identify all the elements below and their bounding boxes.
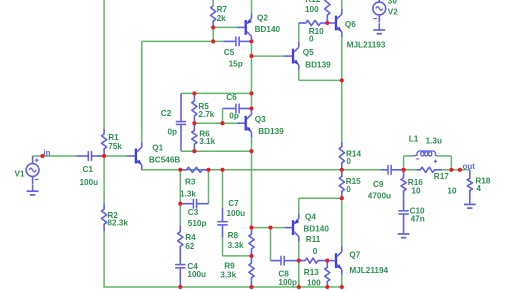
label - bbox=[35, 179, 39, 181]
wire bbox=[213, 26, 237, 28]
transistor Q1 bbox=[127, 142, 141, 170]
capacitor C1 bbox=[76, 151, 104, 161]
node out bbox=[458, 168, 462, 172]
label C5 bbox=[224, 48, 235, 57]
wire bbox=[298, 70, 300, 80]
wire bbox=[212, 27, 214, 41]
svg-text:Q6: Q6 bbox=[345, 20, 356, 29]
wire bbox=[270, 228, 272, 261]
svg-text:10: 10 bbox=[447, 186, 457, 195]
label Q7 bbox=[349, 250, 360, 259]
node R8-top-tap bbox=[249, 226, 253, 230]
svg-text:3.1k: 3.1k bbox=[199, 137, 215, 146]
svg-text:R11: R11 bbox=[306, 235, 321, 244]
svg-text:4700u: 4700u bbox=[368, 191, 391, 200]
resistor R10 bbox=[299, 20, 328, 25]
node R13-bottom bbox=[325, 285, 329, 289]
svg-text:Q1: Q1 bbox=[152, 143, 163, 152]
voltage source V2 bbox=[373, 0, 386, 23]
svg-text:BC546B: BC546B bbox=[149, 155, 180, 164]
label R18 bbox=[475, 177, 490, 186]
svg-text:MJL21194: MJL21194 bbox=[349, 266, 388, 275]
wire bbox=[437, 155, 451, 157]
svg-text:BD140: BD140 bbox=[303, 224, 329, 233]
svg-text:100u: 100u bbox=[227, 209, 246, 218]
node R7-bottom bbox=[211, 25, 215, 29]
transistor Q3 bbox=[237, 109, 251, 137]
wire bbox=[252, 227, 285, 229]
label C7 bbox=[228, 199, 239, 208]
wire bbox=[251, 41, 253, 108]
wire bbox=[103, 0, 105, 128]
svg-text:4: 4 bbox=[476, 184, 481, 193]
label R5 bbox=[198, 102, 209, 111]
label 30 bbox=[388, 0, 398, 6]
node in bbox=[40, 154, 44, 158]
svg-text:0: 0 bbox=[346, 185, 351, 194]
label 1.3u bbox=[426, 137, 442, 146]
label V1 bbox=[15, 170, 25, 179]
node rail-right bbox=[249, 91, 253, 95]
node Q6-base bbox=[325, 21, 329, 25]
label R4 bbox=[185, 233, 196, 242]
svg-text:1.3k: 1.3k bbox=[180, 190, 196, 199]
resistor R11 bbox=[299, 258, 328, 263]
capacitor C10 bbox=[398, 198, 408, 227]
svg-text:47n: 47n bbox=[411, 215, 425, 224]
label R12 bbox=[305, 0, 320, 4]
resistor R13 bbox=[325, 261, 330, 287]
svg-text:0p: 0p bbox=[229, 112, 239, 121]
wire bbox=[299, 79, 342, 81]
wire bbox=[341, 0, 343, 9]
wire bbox=[298, 242, 300, 287]
label 4700u bbox=[368, 191, 391, 200]
node Q5-base-tap bbox=[249, 54, 253, 58]
node Q4-coll bbox=[297, 259, 301, 263]
capacitor C9 bbox=[381, 165, 404, 175]
svg-text:Q2: Q2 bbox=[257, 14, 268, 23]
svg-text:62: 62 bbox=[185, 242, 195, 251]
wire bbox=[222, 109, 224, 124]
wire bbox=[179, 170, 181, 204]
wire bbox=[299, 197, 342, 199]
node in-junction bbox=[102, 154, 106, 158]
label MJL21193 bbox=[347, 40, 386, 49]
ground bbox=[398, 227, 410, 238]
svg-text:in: in bbox=[43, 149, 50, 158]
label 4 bbox=[476, 184, 481, 193]
node Q4-base bbox=[268, 226, 272, 230]
label 0 bbox=[313, 247, 318, 256]
resistor R9 bbox=[249, 256, 254, 287]
resistor R1 bbox=[102, 128, 107, 156]
label Q6 bbox=[345, 20, 356, 29]
label R17 bbox=[434, 172, 449, 181]
svg-text:R8: R8 bbox=[228, 231, 239, 240]
wire bbox=[103, 286, 341, 288]
svg-text:Q4: Q4 bbox=[305, 213, 316, 222]
label R16 bbox=[408, 178, 423, 187]
svg-text:C1: C1 bbox=[83, 165, 94, 174]
label 100u bbox=[80, 178, 99, 187]
svg-text:BD140: BD140 bbox=[255, 25, 281, 34]
node R9-bottom bbox=[249, 285, 253, 289]
wire bbox=[222, 237, 224, 256]
wire bbox=[179, 204, 181, 226]
svg-text:1.3u: 1.3u bbox=[426, 137, 442, 146]
node C6-tap bbox=[220, 121, 224, 125]
label R3 bbox=[185, 177, 196, 186]
label C6 bbox=[226, 93, 237, 102]
node C7-top bbox=[220, 168, 224, 172]
capacitor C2 bbox=[176, 93, 186, 151]
node R5-top bbox=[192, 91, 196, 95]
wire bbox=[181, 150, 252, 152]
svg-text:0p: 0p bbox=[168, 128, 178, 137]
svg-text:C9: C9 bbox=[373, 180, 384, 189]
label 3.1k bbox=[199, 137, 215, 146]
resistor R2 bbox=[102, 203, 107, 231]
label Q2 bbox=[257, 14, 268, 23]
resistor R16 bbox=[401, 170, 406, 199]
svg-text:100: 100 bbox=[307, 279, 321, 288]
wire bbox=[403, 156, 405, 170]
label BD139 bbox=[305, 60, 331, 69]
label V2 bbox=[388, 8, 398, 17]
resistor R8 bbox=[249, 228, 254, 256]
label R11 bbox=[306, 235, 321, 244]
svg-text:out: out bbox=[463, 162, 476, 171]
wire bbox=[141, 41, 143, 141]
label Q3 bbox=[255, 115, 266, 124]
wire bbox=[142, 169, 381, 171]
label 2k bbox=[217, 14, 227, 23]
label - bbox=[416, 158, 419, 160]
resistor R4 bbox=[178, 225, 183, 253]
label 62 bbox=[185, 242, 195, 251]
wire bbox=[194, 122, 237, 124]
svg-text:Q3: Q3 bbox=[255, 115, 266, 124]
svg-text:100p: 100p bbox=[278, 278, 297, 287]
wire bbox=[442, 169, 452, 171]
svg-text:C5: C5 bbox=[224, 48, 235, 57]
svg-text:2.7k: 2.7k bbox=[198, 110, 214, 119]
label 3.3k bbox=[220, 270, 236, 279]
capacitor C6 bbox=[223, 104, 252, 114]
wire bbox=[450, 156, 452, 170]
label R2 bbox=[107, 211, 118, 220]
label - bbox=[373, 18, 377, 20]
ground bbox=[373, 23, 385, 34]
resistor R18 bbox=[467, 170, 472, 198]
label BC546B bbox=[149, 155, 180, 164]
svg-text:15p: 15p bbox=[229, 59, 243, 68]
label 1.3k bbox=[180, 190, 196, 199]
node R5-R6 bbox=[192, 121, 196, 125]
svg-text:30: 30 bbox=[388, 0, 398, 6]
wire bbox=[223, 255, 252, 257]
label C2 bbox=[161, 109, 172, 118]
svg-text:V1: V1 bbox=[15, 170, 25, 179]
node emitters bbox=[340, 78, 344, 82]
label 0p bbox=[229, 112, 239, 121]
node R15-bottom bbox=[340, 196, 344, 200]
wire bbox=[103, 156, 105, 203]
svg-text:10: 10 bbox=[411, 187, 421, 196]
wire bbox=[222, 170, 224, 208]
resistor R5 bbox=[192, 93, 197, 123]
label 0 bbox=[346, 185, 351, 194]
svg-text:Q7: Q7 bbox=[349, 250, 360, 259]
label C9 bbox=[373, 180, 384, 189]
wire bbox=[404, 169, 417, 171]
svg-text:75k: 75k bbox=[108, 142, 122, 151]
node C5-tap bbox=[211, 39, 215, 43]
svg-text:R9: R9 bbox=[224, 261, 235, 270]
wire bbox=[298, 23, 300, 42]
svg-text:82.3k: 82.3k bbox=[107, 219, 128, 228]
label R1 bbox=[108, 133, 119, 142]
label R9 bbox=[224, 261, 235, 270]
svg-text:3.3k: 3.3k bbox=[228, 241, 244, 250]
resistor R6 bbox=[192, 123, 197, 151]
label R14 bbox=[346, 149, 361, 158]
wire bbox=[251, 137, 253, 227]
label 0 bbox=[309, 35, 314, 44]
label R8 bbox=[228, 231, 239, 240]
svg-text:2k: 2k bbox=[217, 14, 227, 23]
resistor R17 bbox=[417, 167, 442, 172]
wire bbox=[451, 169, 469, 171]
svg-text:R12: R12 bbox=[305, 0, 320, 4]
wire bbox=[104, 155, 127, 157]
wire bbox=[252, 55, 285, 57]
node out-mid bbox=[340, 168, 344, 172]
node R3-left bbox=[178, 168, 182, 172]
label R7 bbox=[217, 5, 228, 14]
label 47n bbox=[411, 215, 425, 224]
resistor R15 bbox=[339, 170, 344, 198]
label BD140 bbox=[255, 25, 281, 34]
resistor R3 bbox=[180, 167, 208, 172]
wire bbox=[341, 37, 343, 80]
node C9-right bbox=[402, 168, 406, 172]
node Q7-emitter bbox=[340, 285, 344, 289]
label C8 bbox=[278, 269, 289, 278]
svg-text:3.3k: 3.3k bbox=[220, 270, 236, 279]
label out bbox=[463, 162, 476, 171]
svg-text:BD139: BD139 bbox=[305, 60, 331, 69]
svg-text:C7: C7 bbox=[228, 199, 239, 208]
label 3.3k bbox=[228, 241, 244, 250]
wire bbox=[142, 40, 224, 42]
label 100u bbox=[227, 209, 246, 218]
label C4 bbox=[187, 262, 198, 271]
svg-text:MJL21193: MJL21193 bbox=[347, 40, 386, 49]
label 100p bbox=[278, 278, 297, 287]
node C4-bottom bbox=[178, 285, 182, 289]
svg-text:V2: V2 bbox=[388, 8, 398, 17]
node Q7-base bbox=[325, 259, 329, 263]
label C10 bbox=[410, 207, 425, 216]
label BD140 bbox=[303, 224, 329, 233]
label 0 bbox=[346, 157, 351, 166]
wire bbox=[341, 275, 343, 287]
label MJL21194 bbox=[349, 266, 388, 275]
wire bbox=[103, 231, 105, 287]
label 82.3k bbox=[107, 219, 128, 228]
svg-text:100u: 100u bbox=[187, 270, 206, 279]
svg-text:Q5: Q5 bbox=[303, 48, 314, 57]
label Q1 bbox=[152, 143, 163, 152]
wire bbox=[251, 0, 253, 13]
wire bbox=[298, 198, 300, 213]
node R6-bottom bbox=[192, 149, 196, 153]
transistor Q5 bbox=[284, 42, 298, 70]
resistor R12 bbox=[325, 0, 330, 23]
svg-text:R7: R7 bbox=[217, 5, 228, 14]
svg-text:100u: 100u bbox=[80, 178, 99, 187]
label R10 bbox=[309, 27, 324, 36]
svg-text:C6: C6 bbox=[226, 93, 237, 102]
label R15 bbox=[346, 177, 361, 186]
label C1 bbox=[83, 165, 94, 174]
wire bbox=[181, 92, 252, 94]
node L1-right bbox=[449, 168, 453, 172]
node Q4-coll-rail bbox=[297, 285, 301, 289]
capacitor C7 bbox=[217, 208, 227, 237]
node C6-right bbox=[249, 106, 253, 110]
svg-text:R4: R4 bbox=[185, 233, 196, 242]
ground bbox=[464, 198, 476, 209]
label C3 bbox=[188, 208, 199, 217]
capacitor C5 bbox=[223, 37, 251, 47]
wire bbox=[208, 170, 210, 204]
label 10 bbox=[447, 186, 457, 195]
label 100u bbox=[187, 270, 206, 279]
svg-text:R17: R17 bbox=[434, 172, 449, 181]
node R3-right bbox=[206, 168, 210, 172]
wire bbox=[33, 155, 77, 157]
label 100 bbox=[305, 5, 319, 14]
label 10 bbox=[411, 187, 421, 196]
transistor Q6 bbox=[327, 9, 341, 37]
inductor L1 bbox=[413, 151, 437, 156]
wire bbox=[404, 155, 413, 157]
wire bbox=[341, 80, 343, 141]
svg-text:0: 0 bbox=[313, 247, 318, 256]
svg-text:R13: R13 bbox=[304, 268, 319, 277]
label Q4 bbox=[305, 213, 316, 222]
label 100 bbox=[307, 279, 321, 288]
label L1 bbox=[409, 135, 419, 144]
svg-text:C2: C2 bbox=[161, 109, 172, 118]
resistor R14 bbox=[339, 142, 344, 170]
transistor Q4 bbox=[284, 213, 299, 241]
label R6 bbox=[199, 130, 210, 139]
wire bbox=[141, 169, 143, 171]
label BD139 bbox=[258, 127, 284, 136]
svg-text:R1: R1 bbox=[108, 133, 119, 142]
capacitor C4 bbox=[175, 253, 185, 287]
label 75k bbox=[108, 142, 122, 151]
label 510p bbox=[188, 219, 207, 228]
wire bbox=[212, 0, 214, 6]
node Q2-collector bbox=[249, 39, 253, 43]
label + bbox=[35, 158, 39, 162]
svg-text:510p: 510p bbox=[188, 219, 207, 228]
wire bbox=[299, 22, 305, 24]
svg-text:0: 0 bbox=[309, 35, 314, 44]
label R13 bbox=[304, 268, 319, 277]
label 2.7k bbox=[198, 110, 214, 119]
wire bbox=[341, 198, 343, 246]
capacitor C3 bbox=[180, 199, 208, 209]
svg-text:100: 100 bbox=[305, 5, 319, 14]
label 15p bbox=[229, 59, 243, 68]
voltage source V1 bbox=[26, 156, 39, 184]
node R8-R9 bbox=[249, 254, 253, 258]
label Q5 bbox=[303, 48, 314, 57]
svg-text:L1: L1 bbox=[409, 135, 419, 144]
transistor Q7 bbox=[327, 246, 341, 274]
label 0p bbox=[168, 128, 178, 137]
svg-text:BD139: BD139 bbox=[258, 127, 284, 136]
capacitor C8 bbox=[271, 256, 299, 266]
label + bbox=[434, 160, 437, 163]
svg-text:R3: R3 bbox=[185, 177, 196, 186]
label in bbox=[43, 149, 50, 158]
node Q3-emitter bbox=[249, 149, 253, 153]
svg-text:0: 0 bbox=[346, 157, 351, 166]
resistor R7 bbox=[211, 6, 216, 28]
transistor Q2 bbox=[237, 13, 252, 41]
node C3-left bbox=[178, 202, 182, 206]
ground bbox=[27, 184, 39, 195]
svg-text:C3: C3 bbox=[188, 208, 199, 217]
